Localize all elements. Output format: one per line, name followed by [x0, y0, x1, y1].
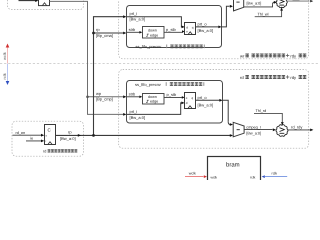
svg-text:Thl_wl: Thl_wl — [258, 13, 269, 17]
svg-text:ss_fifo_precnv: ss_fifo_precnv — [135, 82, 161, 87]
svg-text:wclk: wclk — [189, 171, 196, 175]
svg-text:prt_i: prt_i — [130, 11, 138, 16]
svg-text:ss_fifo_precnv: ss_fifo_precnv — [136, 44, 162, 49]
svg-text:strb: strb — [129, 92, 136, 97]
svg-text:rdy: rdy — [290, 53, 297, 58]
svg-text:rclk: rclk — [272, 171, 278, 175]
svg-text:ie: ie — [30, 136, 33, 140]
svg-text:down: down — [148, 95, 157, 99]
svg-text:[Bw_a:0]: [Bw_a:0] — [246, 131, 261, 135]
svg-text:[Bw_a:0]: [Bw_a:0] — [198, 102, 214, 107]
svg-text:Thl_rd: Thl_rd — [256, 109, 267, 113]
svg-text:prt_o: prt_o — [198, 22, 208, 27]
svg-text:[Bw_a:0]: [Bw_a:0] — [130, 17, 146, 22]
svg-text:p_stb: p_stb — [167, 92, 178, 97]
svg-text:rd: rd — [43, 149, 46, 153]
svg-text:cmpeq_r: cmpeq_r — [246, 125, 262, 129]
svg-text:rclk: rclk — [250, 176, 256, 180]
svg-text:wclk: wclk — [2, 52, 7, 60]
svg-text:C: C — [48, 128, 51, 133]
svg-text:[Bw_a:0]: [Bw_a:0] — [247, 2, 262, 6]
svg-text:bram: bram — [226, 162, 240, 169]
svg-text:wp: wp — [96, 91, 102, 96]
svg-text:edge: edge — [150, 100, 158, 104]
svg-text:strb: strb — [129, 27, 136, 32]
svg-text:rd_en: rd_en — [16, 131, 26, 135]
svg-text:prt_o: prt_o — [198, 95, 208, 100]
svg-text:[Bp_cma]: [Bp_cma] — [96, 33, 113, 38]
svg-text:rclk: rclk — [2, 73, 7, 79]
svg-text:wclk: wclk — [211, 176, 218, 180]
svg-text:down: down — [148, 29, 157, 33]
svg-text:prt_i: prt_i — [130, 109, 138, 114]
svg-text:rdy: rdy — [290, 75, 297, 80]
svg-text:[Bw_a:0]: [Bw_a:0] — [198, 28, 214, 33]
svg-text:[Bw_a:0]: [Bw_a:0] — [130, 115, 146, 120]
svg-text:rd_rdy: rd_rdy — [291, 125, 302, 130]
svg-text:wr: wr — [240, 53, 245, 58]
svg-text:edge: edge — [150, 34, 158, 38]
svg-text:[Bw_a:0]: [Bw_a:0] — [60, 136, 76, 141]
svg-text:[Bp_cmp]: [Bp_cmp] — [96, 97, 113, 102]
svg-text:p_stb: p_stb — [166, 27, 177, 32]
